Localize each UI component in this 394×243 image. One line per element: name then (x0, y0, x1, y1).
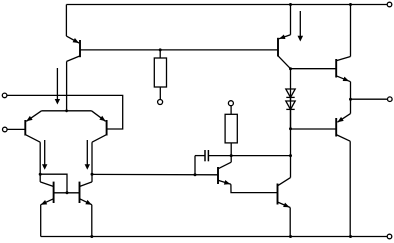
transistor Q5 emitter arrow (NPN) (224, 180, 230, 185)
resistor R1 (154, 58, 166, 87)
node mirror right collector junction (91, 173, 94, 176)
wire Q4a emitter to V- (40, 205, 42, 237)
wire Q2 collector to D1 (290, 69, 292, 129)
wire bias line Q1 base to Q2 base (80, 49, 278, 51)
wire R2 bottom lead (230, 143, 232, 156)
node V+ junction at Q2 emitter (289, 3, 292, 6)
transistor Q8 emitter lead (337, 114, 350, 123)
terminal output pin (388, 97, 393, 102)
wire Q1 collector to diff pair tail (66, 61, 68, 110)
wire mirror diode link (40, 174, 67, 193)
node mirror left collector junction (39, 173, 42, 176)
transistor Q3b emitter lead (92, 111, 106, 122)
wire Q2 emitter to V+ (290, 5, 292, 35)
node compensation tap junction (194, 173, 197, 176)
transistor Q7 base bar (335, 59, 337, 78)
current arrow tail current (55, 68, 60, 105)
transistor Q4a emitter arrow (NPN) (41, 200, 47, 205)
transistor Q4b collector lead (80, 182, 93, 187)
transistor Q4b emitter lead (80, 199, 92, 205)
wire Q7 emitter to output node (350, 82, 352, 100)
transistor Q6 collector lead (278, 178, 291, 186)
wire Q3a collector down to mirror (39, 142, 41, 182)
wire V- bottom rail (41, 236, 388, 238)
node V- junction at Q6 emitter (289, 235, 292, 238)
transistor Q2 emitter arrow (PNP) (279, 35, 285, 40)
transistor Q4a emitter lead (41, 199, 54, 205)
wire Q7 collector to V+ (350, 5, 352, 57)
wire R1 top lead (159, 50, 161, 58)
wire Q6 collector up (290, 156, 292, 178)
node VAS node at R2 (230, 154, 233, 157)
wire Q2 collector to Q7 base (291, 68, 337, 70)
wire Q1 emitter to V+ (65, 5, 67, 37)
diode D1 (286, 89, 295, 97)
node bias line junction at R1 (159, 48, 162, 51)
resistor R2 (225, 114, 237, 143)
wire Q8 collector to V- (349, 141, 351, 236)
wire R1 bottom lead (159, 87, 161, 100)
transistor Q6 emitter arrow (NPN) (283, 203, 289, 208)
transistor Q1 base bar (79, 40, 81, 57)
wire Q4b emitter to V- (91, 205, 93, 237)
transistor Q3b emitter arrow (PNP) (99, 116, 105, 122)
terminal V+ pin (387, 2, 392, 7)
node output junction (349, 98, 352, 101)
transistor Q7 emitter lead (336, 76, 350, 82)
wire mirror output to Q5 base (92, 173, 218, 175)
wire output node to Q8 emitter (350, 99, 352, 113)
transistor Q4b emitter arrow (NPN) (85, 200, 91, 205)
terminal bias pin (158, 100, 163, 105)
node V- junction at Q8 collector (349, 235, 352, 238)
wire V+ top rail (66, 4, 387, 6)
wire VAS node to main column (231, 155, 290, 157)
transistor Q6 emitter lead (278, 202, 291, 208)
transistor Q8 collector lead (336, 135, 350, 142)
transistor Q4b base bar (79, 182, 81, 203)
wire Q5 emitter to Q6 base (231, 184, 278, 192)
current arrow right collector (85, 140, 90, 170)
wire Q5 collector up (230, 156, 232, 163)
wire cap right lead (208, 155, 231, 157)
transistor Q1 emitter lead (66, 36, 79, 43)
node mirror base junction (66, 191, 69, 194)
capacitor C1 right plate (207, 150, 209, 161)
transistor Q5 collector lead (218, 162, 231, 169)
wire diff pair emitter bus (42, 110, 92, 112)
wire input1 to Q3b base (7, 95, 123, 129)
current arrow VAS current source (298, 11, 304, 42)
wire cap left lead (195, 155, 205, 157)
transistor Q3b base bar (106, 120, 108, 136)
transistor Q5 base bar (217, 167, 219, 184)
terminal V- pin (387, 234, 392, 239)
wire Q8 base (291, 128, 337, 130)
capacitor C1 left plate (204, 150, 206, 161)
wire Q3b collector down to mirror (91, 142, 93, 182)
transistor Q7 emitter arrow (NPN) (343, 77, 349, 82)
transistor Q4a base bar (53, 182, 55, 203)
transistor Q8 base bar (335, 118, 337, 137)
transistor Q3a collector lead (25, 135, 40, 143)
transistor Q3a emitter lead (26, 111, 41, 122)
transistor Q2 emitter lead (279, 35, 291, 39)
transistor Q1 collector lead (67, 56, 80, 62)
wire D1 to D2 (290, 97, 292, 101)
node V+ junction at Q7 collector (349, 3, 352, 6)
wire D2 down to Q8 base node (290, 109, 292, 128)
transistor Q3a base bar (24, 120, 26, 136)
wire Q8 base node down to VAS node (290, 129, 292, 156)
transistor Q3b collector lead (92, 135, 107, 143)
transistor Q6 base bar (277, 184, 279, 205)
node V- junction at Q4 emitter (90, 235, 93, 238)
node VAS node at main column (289, 154, 292, 157)
transistor Q5 emitter lead (218, 180, 231, 184)
transistor Q8 emitter arrow (PNP) (337, 117, 343, 122)
node Q2 collector junction (289, 67, 292, 70)
wire input2 to Q3a base (7, 128, 25, 130)
wire output node to pin (351, 98, 388, 100)
terminal input 1 (non-inverting) (2, 93, 7, 98)
wire R2 top lead (230, 106, 232, 115)
terminal compensation pin (228, 101, 233, 106)
wire Q6 emitter to V- (289, 208, 291, 237)
wire compensation tap (194, 156, 196, 175)
transistor Q7 collector lead (336, 57, 350, 61)
node tail junction (65, 109, 68, 112)
current arrow left collector (42, 140, 47, 170)
transistor Q4a collector lead (40, 182, 53, 187)
terminal input 2 (inverting) (3, 127, 8, 132)
transistor Q3a emitter arrow (PNP) (26, 116, 32, 121)
transistor Q2 base bar (277, 38, 279, 57)
diode D2 (286, 101, 295, 109)
node Q8 base junction (289, 127, 292, 130)
wire mirror base link (54, 192, 80, 194)
transistor Q2 collector lead (278, 56, 291, 69)
transistor Q1 emitter arrow (PNP) (73, 38, 79, 43)
